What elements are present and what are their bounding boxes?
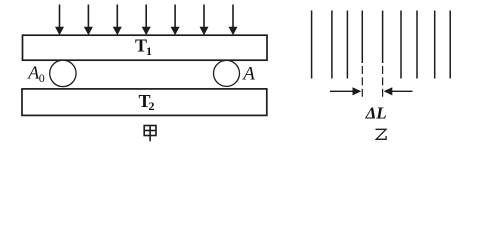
fringe line 9 bbox=[449, 11, 451, 79]
svg-text:ΔL: ΔL bbox=[365, 103, 387, 122]
fringe line 8 bbox=[434, 11, 436, 79]
fringe line 7 bbox=[416, 11, 418, 79]
caption jia (甲) bbox=[144, 126, 156, 142]
force arrow F6 bbox=[200, 5, 209, 36]
svg-text:A: A bbox=[241, 64, 255, 85]
force arrow F3 bbox=[113, 5, 122, 36]
fringe line 1 bbox=[311, 11, 313, 79]
roller A0 (left circle) bbox=[50, 60, 76, 86]
caption yi (乙) bbox=[376, 129, 387, 139]
force arrow F4 bbox=[142, 5, 151, 36]
fringe line 2 bbox=[331, 11, 333, 79]
top plate T1 bbox=[23, 35, 268, 60]
left measure arrow bbox=[330, 87, 361, 95]
roller A (right circle) bbox=[214, 60, 240, 86]
force arrow F1 bbox=[55, 5, 64, 36]
force arrow F7 bbox=[229, 5, 238, 36]
fringe line 6 bbox=[400, 11, 402, 79]
fringe line 4 (left boundary, solid part) bbox=[361, 11, 363, 64]
svg-text:A0: A0 bbox=[27, 62, 45, 85]
right boundary dashed extension bbox=[382, 66, 384, 100]
force arrow F2 bbox=[84, 5, 93, 36]
left boundary dashed extension bbox=[361, 66, 363, 100]
fringe line 3 bbox=[346, 11, 348, 79]
fringe line 5 (right boundary, solid part) bbox=[382, 11, 384, 64]
right measure arrow bbox=[384, 87, 413, 95]
force arrow F5 bbox=[171, 5, 180, 36]
bottom plate T2 bbox=[22, 89, 267, 116]
